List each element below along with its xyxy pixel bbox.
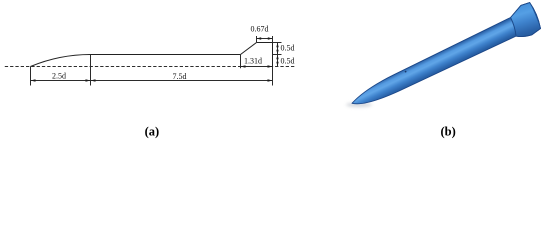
- dimension line 2.5d: [31, 80, 91, 82]
- extension lines above flare top for 0.67d: [256, 36, 258, 42]
- arrowheads 0.5d upper pair: [276, 43, 278, 48]
- centerline (dashed axis): [5, 66, 296, 68]
- svg-text:0.67d: 0.67d: [251, 25, 269, 34]
- arrowheads 0.67d: [257, 37, 262, 39]
- svg-text:(b): (b): [440, 125, 455, 139]
- nose ogive profile: [31, 55, 91, 67]
- flare skirt of tail: [511, 3, 541, 37]
- arrowheads 2.5d: [31, 79, 36, 82]
- soft shadow under nose: [346, 102, 372, 107]
- flare slant: [241, 43, 257, 55]
- dimension line 7.5d: [91, 80, 273, 82]
- svg-text:1.31d: 1.31d: [244, 56, 262, 65]
- flare base edge: [272, 43, 274, 67]
- svg-text:0.5d: 0.5d: [281, 56, 295, 65]
- body top line: [91, 54, 241, 56]
- dark base face of flare: [530, 3, 541, 29]
- dimension line 0.67d: [257, 38, 273, 40]
- extension of flare top to right: [273, 42, 282, 44]
- svg-text:7.5d: 7.5d: [173, 72, 187, 81]
- dimension line 1.31d: [241, 66, 273, 68]
- flare top line: [257, 42, 273, 44]
- arrowheads 0.5d lower pair: [276, 55, 278, 60]
- extension line at flare slant start: [240, 55, 242, 69]
- mesh dot on body: [405, 71, 407, 73]
- crease where flare meets body: [511, 18, 516, 37]
- extension line at flare base: [272, 67, 274, 86]
- extension line at nose/body junction: [90, 55, 92, 86]
- extension of body top to right: [273, 54, 282, 56]
- arrowheads 1.31d: [241, 65, 246, 67]
- svg-text:0.5d: 0.5d: [281, 43, 295, 52]
- svg-text:(a): (a): [145, 125, 160, 139]
- dimension line 0.5d stack: [277, 43, 279, 67]
- svg-text:2.5d: 2.5d: [52, 72, 66, 81]
- arrowheads 7.5d: [91, 79, 96, 82]
- extension line at nose tip: [30, 67, 32, 86]
- rocket silhouette: [352, 3, 541, 104]
